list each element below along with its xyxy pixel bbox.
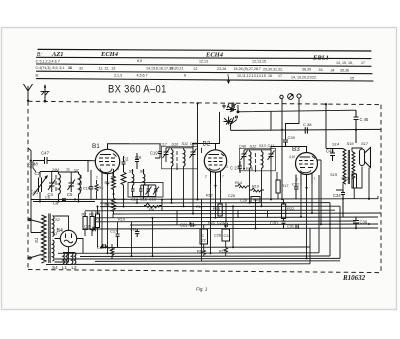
bus wire y253 [58,252,319,255]
svg-text:C34: C34 [333,193,341,198]
table row1 labels [37,51,329,62]
wire R8 leads [97,207,99,248]
svg-text:16: 16 [268,74,272,78]
svg-text:S3: S3 [53,231,59,236]
wire left rail [31,151,42,233]
capacitor C9 [93,227,95,231]
svg-text:R6: R6 [149,207,155,212]
svg-text:B4: B4 [57,228,63,234]
title BX 360 A-01 [108,84,167,96]
resistor R19 zigzag [249,188,264,192]
B2 cathode arrow [214,185,216,188]
wire drop x123 [123,200,125,207]
svg-text:EBL1: EBL1 [312,55,329,62]
riser x330 [329,203,331,256]
svg-text:R9: R9 [95,218,100,222]
table row2 numbers [36,59,366,65]
svg-text:S6: S6 [140,169,146,174]
svg-text:R21: R21 [208,221,215,225]
table pointer mark [227,77,230,84]
wire drop x172 [171,200,173,204]
svg-text:R22: R22 [287,206,295,211]
capacitor C38 [305,127,307,133]
coil S7 osc [79,172,82,198]
wire drop B3 pins [301,184,312,258]
wire B4 filament taps [55,239,84,254]
pin labels B2 [205,165,228,179]
svg-text:R1b: R1b [108,247,115,251]
resistor R14 zigzag [235,184,250,188]
table line 4 [37,71,373,74]
bus wire y264.2 [46,263,310,266]
svg-text:C23: C23 [217,221,224,225]
svg-text:B3: B3 [292,146,300,153]
svg-text:C39: C39 [288,135,296,140]
wire drop x131 [131,222,133,256]
IF1 trimmer C35 [190,148,197,159]
capacitor C21 [189,223,196,227]
resistor R5 [112,169,116,194]
bus wire y221.5 [95,220,356,223]
svg-text:48: 48 [33,162,38,167]
resistor R1 [95,180,98,200]
svg-text:4,5,6,7: 4,5,6,7 [137,73,148,77]
svg-text:S4: S4 [52,265,58,270]
svg-text:C41: C41 [31,190,39,195]
svg-text:R8: R8 [95,211,100,215]
wire drop x102 [101,184,103,248]
svg-text:C30: C30 [270,221,278,226]
svg-text:C31: C31 [287,225,294,229]
resistor R17 box [276,180,280,193]
wire drop x107 [107,186,109,253]
switch contacts lower [224,116,238,126]
svg-text:R19: R19 [252,185,259,189]
wire drop x152 [152,218,154,256]
B3 cathode arrow [305,187,307,190]
svg-text:29,30,31,32,: 29,30,31,32, [263,67,283,71]
svg-text:C4: C4 [48,192,54,197]
svg-text:R14: R14 [235,181,242,185]
wire HT drop x326 [325,104,327,148]
svg-text:C47: C47 [41,151,50,156]
svg-text:19,20,21: 19,20,21 [170,67,184,71]
wire R17 down [277,193,279,200]
bus wire y224.5 [130,224,378,225]
resistor R23 box [352,174,357,188]
table line 1 [38,49,371,51]
resistor R6 zigzag [144,203,162,208]
svg-text:ECH4: ECH4 [205,52,224,59]
svg-text:C28: C28 [240,199,247,203]
vertical drops group left [102,148,321,262]
chassis dashed border bottom [28,270,381,273]
svg-text:C17: C17 [110,229,118,234]
svg-text:2: 2 [96,176,98,180]
resistor R16 [224,248,228,257]
svg-text:33.: 33. [319,68,324,72]
svg-text:C25: C25 [228,194,235,198]
wire B1 cathode drop [90,170,92,200]
capacitor C27 [238,161,242,173]
svg-text:S16: S16 [347,141,355,146]
svg-text:34: 34 [331,68,335,72]
labels C14 C15 C16 [131,197,156,201]
svg-text:R3: R3 [89,213,94,217]
svg-text:8,9: 8,9 [137,59,142,63]
svg-text:C: C [202,234,205,238]
IF2 shield box [240,148,276,171]
capacitor C19 [129,144,162,158]
bus wire y256.3 [80,255,330,258]
IF transformer 2 coils [250,152,264,169]
chassis dashed border left [27,101,29,269]
wire R23 down [353,188,355,199]
resistor R4 [112,194,116,214]
wire grid to B1 [47,161,95,173]
wire left rail top hook [28,148,34,200]
chassis dashed border right [380,105,382,273]
mains input wires [29,218,41,259]
wire drop x323 [318,160,322,224]
svg-text:B:: B: [37,52,42,58]
svg-text:C21: C21 [180,223,188,228]
wire drop B2 pins [211,182,221,253]
wire drop x137 [136,200,138,204]
svg-text:C:4(74,3), 8,9, 5,1: C:4(74,3), 8,9, 5,1 [36,66,65,70]
wire terminal1 down [281,99,283,200]
electrolytic C22 box [200,229,208,244]
svg-text:R18: R18 [246,167,253,171]
B1 cathode arrow [106,183,108,186]
wire S16 to speaker [352,148,362,188]
osc coil S6 [144,169,145,189]
bus wire y210.5 [85,209,335,212]
output transformer top wire [326,148,343,150]
wire long av line y130 [231,123,381,131]
capacitor C23 [225,223,227,227]
svg-text:S11: S11 [182,142,188,146]
bus wire y203 [100,202,330,204]
capacitor C47 [33,157,58,164]
capacitor C10 [89,187,93,189]
wire drop x177 [176,166,178,225]
svg-text:C.9: C.9 [84,225,90,229]
capacitor C28 box [251,197,260,203]
IF2 trimmer C41 [268,150,275,161]
wire drop x201 [201,148,203,262]
wire grid line B3 [271,147,286,150]
IF2 trimmer C40 [241,150,248,161]
bus wire y199.5 [34,198,342,201]
tube B3 pins [301,174,312,191]
ground symbol [41,85,50,104]
wire B2 grid cap to IF1 [192,144,194,148]
trimmer capacitor C5 [68,177,76,192]
tube B1 top cap lead [108,144,130,150]
bus wire y258.8 [55,257,340,260]
svg-text:C43: C43 [326,149,334,154]
svg-text:25: 25 [350,77,354,81]
svg-text:C 38: C 38 [303,122,312,127]
resistor R7 zigzag [121,172,126,200]
choke L2 [72,253,76,264]
capacitor C36 [353,217,359,229]
svg-text:R10: R10 [118,218,125,222]
svg-text:Fig. 1: Fig. 1 [196,287,208,292]
pin labels B1 [96,167,119,180]
wire vertical x271 top [270,112,272,130]
pin labels B3 [289,155,316,182]
output transformer core [348,150,349,184]
svg-text:3: 3 [117,167,119,171]
tube B4 AZ1 rectifier [60,230,76,246]
svg-text:S15: S15 [330,172,338,177]
svg-text:8: 8 [184,74,186,78]
tube B1 ECH4 [95,149,119,173]
wire coil bottoms to bus [33,198,95,202]
svg-text:S10: S10 [172,142,180,146]
capacitor C32 [294,175,299,200]
svg-text:R5: R5 [105,180,111,185]
resistor R13 box [218,204,222,216]
junction dot left rail [30,160,32,162]
svg-text:2,1,3: 2,1,3 [114,73,122,77]
capacitor C17b [116,234,120,248]
svg-text:R19: R19 [197,250,204,254]
svg-text:15,26,(9),27,28,7: 15,26,(9),27,28,7 [234,67,261,71]
wire HT secondary to B4 [55,216,69,262]
capacitor C43 [330,149,335,162]
wire drop x261 [261,200,263,207]
wire drop x117 [117,222,119,234]
wire drop x271 [270,166,272,200]
table line 2 [37,57,372,58]
svg-text:R20: R20 [253,198,259,202]
capacitor C12 [122,156,126,172]
choke L1 [63,253,67,264]
svg-text:12,13: 12,13 [199,59,208,63]
svg-text:R11: R11 [196,205,203,209]
resistor R2 box [83,217,87,230]
wire drop x283 [283,200,285,222]
svg-text:R17: R17 [282,184,289,188]
svg-text:4,10: 4,10 [289,155,295,159]
svg-text:ECH4: ECH4 [100,51,119,58]
phono switch contacts [222,103,239,113]
svg-text:23-26: 23-26 [217,67,226,71]
pickup terminal 1 [280,95,283,98]
table row4 numbers [36,73,355,80]
svg-text:R1: R1 [99,186,104,190]
tube B2 pins [211,171,221,188]
svg-text:R2: R2 [82,213,87,217]
svg-text:16: 16 [68,66,72,70]
junction dots buses [97,129,371,260]
wire drop x226 [225,203,227,222]
svg-text:C11: C11 [130,228,137,232]
svg-text:C32: C32 [292,183,299,187]
svg-text:C 27: C 27 [230,166,240,171]
wire chokes top [63,253,75,265]
chassis dashed border top [28,101,381,104]
svg-text:32: 32 [79,66,83,70]
bus wire y217.5 [95,216,378,219]
svg-text:11, 12, 13: 11, 12, 13 [99,66,116,70]
pickup terminal 3 [296,94,301,98]
wire drop x238 [237,211,239,218]
wire drop x249 [249,200,251,204]
svg-text:22: 22 [202,239,206,243]
svg-text:L2: L2 [72,265,78,270]
padder caps C14 C15 C16 row [131,185,159,197]
svg-text:L1: L1 [62,265,68,270]
table row3 numbers [36,66,350,72]
junction speaker return [368,198,370,200]
power transformer secondary top [53,216,55,237]
svg-text:3: 5,1,2,3,4 & 7: 3: 5,1,2,3,4 & 7 [36,59,60,63]
pickup terminal 2 gram [288,94,294,100]
svg-text:S5: S5 [129,169,135,174]
wire S15 tap [336,184,343,191]
wire drop x183 [183,200,185,207]
table line 5 [37,79,374,81]
svg-text:R12: R12 [206,194,213,198]
wire dial drop [197,103,199,148]
wire drop x277 [276,172,278,180]
resistor R19b [202,248,206,257]
resistor R16b zigzag [110,244,114,259]
tube B3 EBL1 [296,153,318,175]
svg-text:2: 2 [205,175,207,179]
wire terminal3 down [286,98,300,139]
capacitor C11 [135,229,139,237]
svg-text:B1: B1 [92,143,100,150]
capacitor C8 left [62,199,66,201]
wire y198 right [343,196,378,199]
riser x310 [309,228,311,263]
IF1 shield box [162,146,198,169]
wire C24 leads [225,225,227,248]
tube B1 pins [102,173,113,187]
capacitor C18 [135,153,139,169]
svg-text:14. 19,20,21/22.: 14. 19,20,21/22. [291,76,317,80]
svg-text:C10: C10 [83,187,90,191]
power transformer S1 primary [42,215,47,263]
junction dot dial drop [196,102,198,104]
svg-text:R10632: R10632 [342,274,366,282]
IF transformer 1 labels [160,142,197,147]
wire top of coils [40,172,79,179]
svg-text:7: 7 [222,175,224,179]
svg-text:12,13,15.: 12,13,15. [252,60,267,64]
svg-text:17: 17 [361,61,365,65]
resistor R8 box [96,214,100,228]
IF2 top wires [244,150,271,152]
svg-text:S1: S1 [34,237,39,243]
svg-text:38,39: 38,39 [302,68,311,72]
svg-text:C26: C26 [214,234,221,238]
tube B3 top cap lead [286,147,307,153]
bus wire y206.5 [100,205,340,207]
wire drop x162 [161,200,163,211]
wire drop x143 [143,189,145,200]
speaker S17 [360,148,371,168]
power transformer secondary bottom [53,240,55,261]
capacitor C45 [354,110,359,143]
output transformer secondary S16 [352,152,355,179]
IF2 bottom wires [244,161,271,200]
svg-text:R23: R23 [342,176,350,181]
table line 3 [37,64,372,66]
svg-text:BX 360 A–01: BX 360 A–01 [108,84,167,96]
svg-text:35,36: 35,36 [340,68,349,72]
tube B2 ECH4 [204,150,226,172]
coil S5 antenna [56,172,60,198]
svg-text:R13: R13 [213,207,220,211]
variable capacitor C7 [33,172,48,198]
IF transformer 1 coils [172,150,186,167]
IF1 top wires [166,148,193,150]
electrolytic C24 box [222,229,230,241]
wire C22 down [203,225,205,248]
wire switch to B2 [216,112,220,144]
resistor R3 box [90,217,94,230]
svg-text:R16: R16 [219,250,226,254]
svg-text:S17: S17 [361,141,369,146]
capacitor C39 [283,140,288,147]
junction dot C45 line [355,129,357,131]
wire speaker return [368,168,370,199]
capacitor C34 [341,190,345,218]
wire drop x267 [267,211,269,218]
junction dot top border [325,103,327,105]
junction dots antenna bus [39,201,80,203]
riser x340 [339,206,341,258]
capacitor C31 [296,225,298,229]
capacitor C30 [282,221,286,229]
wire R2 R3 leads [85,212,92,237]
wire drop x197 [197,148,199,200]
svg-text:C24: C24 [224,234,231,238]
output transformer primary S14 [343,149,346,185]
svg-text:7: 7 [314,177,316,181]
svg-text:C19: C19 [150,151,158,156]
padder shield box [128,183,163,198]
svg-text:C 45: C 45 [360,117,370,122]
svg-text:10,11,12,13,14,15: 10,11,12,13,14,15 [237,74,266,78]
wire drop x113 [112,214,114,218]
bus wire y261.2 [95,260,340,263]
wire drop x255 [255,168,257,229]
bus wire y213.5 [113,213,381,214]
svg-text:AZ1: AZ1 [51,51,64,58]
trimmer capacitor C4 [48,178,56,192]
svg-text:S2: S2 [55,217,61,222]
riser x319 [318,175,320,253]
bus wire y247 [100,246,310,249]
capacitor C20 [101,244,108,249]
svg-text:S13: S13 [259,144,267,148]
wire phono to HT line [238,105,356,112]
svg-text:B:: B: [36,73,39,77]
antenna symbol [24,84,33,102]
IF transformer 2 labels [239,144,274,149]
svg-text:C2: C2 [97,246,102,250]
svg-text:3: 3 [226,165,228,169]
wire drop x190 [189,222,191,225]
svg-text:14, 15, 16,: 14, 15, 16, [336,61,353,65]
